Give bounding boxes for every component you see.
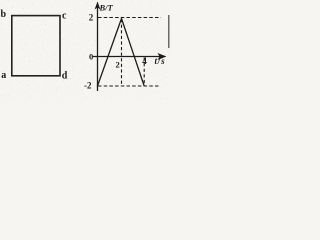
svg-text:B/T: B/T xyxy=(99,3,114,13)
B axis (vertical) xyxy=(97,5,99,91)
dashed drop line t=2 xyxy=(121,19,123,85)
svg-text:0: 0 xyxy=(89,52,93,62)
background xyxy=(0,0,170,99)
t axis (horizontal) xyxy=(93,56,160,58)
svg-text:4: 4 xyxy=(142,56,147,66)
svg-text:2: 2 xyxy=(89,13,94,23)
paper grain xyxy=(0,0,170,99)
dashed drop line t=4 xyxy=(143,58,145,85)
dashed line B=2 xyxy=(98,17,161,19)
square loop abcd xyxy=(12,16,60,76)
dashed line B=-2 xyxy=(98,85,160,87)
scan artifact line (right edge) xyxy=(168,15,170,48)
svg-text:2: 2 xyxy=(116,60,120,70)
svg-text:t/s: t/s xyxy=(155,56,166,66)
B axis arrowhead xyxy=(95,2,101,10)
svg-text:b: b xyxy=(1,9,7,20)
svg-text:c: c xyxy=(62,10,67,21)
svg-text:d: d xyxy=(62,70,68,81)
t axis arrowhead xyxy=(158,53,167,60)
B(t) triangle waveform xyxy=(97,19,144,87)
svg-text:a: a xyxy=(1,70,6,81)
svg-text:-2: -2 xyxy=(84,81,92,91)
